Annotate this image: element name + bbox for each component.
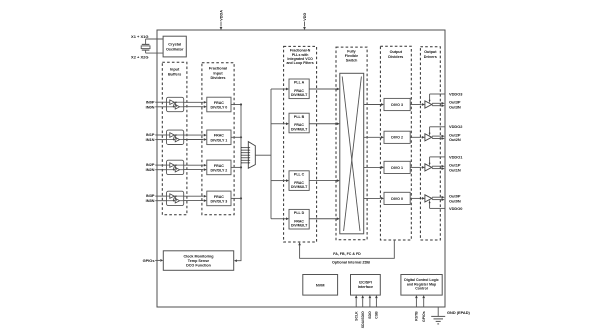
switch matrix box (340, 73, 364, 234)
clock monitoring box (163, 251, 233, 270)
wire VDDO2 (430, 126, 445, 128)
wire feedback arrow (298, 242, 301, 245)
svg-text:GPIOs: GPIOs (143, 258, 155, 263)
svg-text:DIV/MULT: DIV/MULT (291, 93, 308, 97)
wire feed to PLL B (271, 123, 286, 125)
wire IN3N (155, 200, 166, 202)
svg-text:FRAC: FRAC (214, 164, 224, 168)
svg-text:FRAC: FRAC (214, 134, 224, 138)
nvm box (303, 275, 338, 296)
svg-text:and Loop Filters: and Loop Filters (286, 61, 313, 65)
input buffer IN1 (167, 130, 184, 144)
wire mux out (255, 154, 271, 156)
wire feed to PLL C (271, 180, 286, 182)
wire switch out 3 (364, 104, 381, 106)
svg-text:SDO: SDO (368, 311, 372, 319)
wire div3 to driver (410, 104, 421, 106)
pin SDO (369, 298, 371, 307)
pll C box (289, 171, 309, 191)
wire buffer1 to frac P (184, 134, 204, 136)
svg-text:IN0N: IN0N (146, 104, 155, 109)
digital control box (401, 275, 442, 296)
svg-text:Control: Control (415, 287, 427, 291)
svg-text:PLL C: PLL C (294, 173, 305, 177)
wire switch out 1 (364, 166, 381, 168)
svg-text:VDDO3: VDDO3 (449, 91, 463, 96)
fractional input dividers group (202, 63, 234, 215)
switch group (336, 47, 367, 240)
wire crystal top (146, 38, 164, 40)
svg-text:Oscillator: Oscillator (166, 47, 184, 51)
svg-text:Optional Internal ZDB: Optional Internal ZDB (332, 260, 370, 264)
svg-text:VDD: VDD (303, 13, 307, 21)
wire IN1P (155, 134, 166, 136)
output divider box 0 (384, 192, 410, 204)
wire Out1P (432, 165, 441, 167)
svg-text:Drivers: Drivers (424, 55, 437, 59)
frac divider box 0 (207, 97, 231, 112)
svg-text:Out1N: Out1N (449, 167, 461, 172)
output divider box 2 (384, 131, 410, 143)
wire to ground (437, 307, 439, 316)
wire feedback (300, 240, 395, 258)
pin GPIOs (423, 298, 425, 307)
svg-text:CSB: CSB (375, 311, 379, 319)
wire buffer3 to frac N (184, 200, 204, 202)
wire frac3 out (231, 197, 241, 199)
chip boundary (157, 30, 445, 307)
wire buffer0 to frac P (184, 101, 204, 103)
svg-text:DIVO 2: DIVO 2 (391, 136, 403, 140)
output drivers group (420, 47, 440, 240)
svg-text:DIV/DLY 1: DIV/DLY 1 (211, 139, 228, 143)
svg-text:X1 + X1G: X1 + X1G (131, 34, 148, 39)
wire Out0P (432, 196, 441, 198)
output dividers group (380, 46, 411, 240)
wire PLL C to switch (309, 180, 337, 182)
output driver 3 (425, 101, 432, 108)
svg-text:DIVO 0: DIVO 0 (391, 197, 403, 201)
pll B box (289, 113, 309, 133)
svg-text:DIV/DLY 2: DIV/DLY 2 (211, 169, 228, 173)
wire VDDO3 (430, 93, 445, 95)
pin VDDA (220, 22, 222, 27)
svg-text:Output: Output (390, 50, 403, 54)
svg-text:Output: Output (424, 50, 437, 54)
pll D box (289, 209, 309, 229)
wire pll feed bus (270, 89, 272, 219)
svg-text:GND (EPAD): GND (EPAD) (447, 310, 471, 315)
wire PLL B to switch (309, 123, 337, 125)
svg-text:X2 + X2G: X2 + X2G (131, 55, 148, 60)
wire Out3N (432, 105, 441, 107)
wire IN2N (155, 169, 166, 171)
svg-text:IN2N: IN2N (146, 167, 155, 172)
input mux (248, 142, 255, 169)
wire buffer0 to frac N (184, 106, 204, 108)
svg-text:DIV/DLY 0: DIV/DLY 0 (211, 106, 228, 110)
pll group (284, 46, 317, 242)
wire crystal bottom (146, 52, 164, 54)
wire div2 to driver (410, 136, 421, 138)
svg-text:FRAC: FRAC (214, 195, 224, 199)
svg-text:IN1N: IN1N (146, 137, 155, 142)
wire input bus (237, 105, 242, 261)
svg-text:Flexible: Flexible (345, 54, 358, 58)
output driver 1 (425, 164, 432, 171)
svg-text:Out3N: Out3N (449, 104, 461, 109)
svg-text:Dividers: Dividers (388, 55, 403, 59)
pin SCLK (355, 298, 357, 307)
wire div0 to driver (410, 197, 421, 199)
wire buffer1 to frac N (184, 139, 204, 141)
svg-text:VDDO2: VDDO2 (449, 124, 463, 129)
wire frac1 out (231, 136, 241, 138)
svg-text:Input: Input (213, 71, 223, 75)
svg-text:Fully: Fully (347, 50, 355, 54)
crystal Y1 (145, 39, 147, 44)
wire VDDO1 (430, 156, 445, 158)
wire buffer3 to frac P (184, 195, 204, 197)
svg-text:VDDO0: VDDO0 (449, 206, 462, 211)
wire div1 to driver (410, 166, 421, 168)
wire PLL A to switch (309, 88, 337, 90)
svg-text:SCLK: SCLK (355, 311, 359, 321)
pin SDA/SDIO (362, 298, 364, 307)
input buffer IN0 (167, 97, 184, 111)
wire switch out 2 (364, 136, 381, 138)
switch cross (342, 77, 360, 232)
driver 1 fork (431, 166, 433, 168)
output divider box 1 (384, 161, 410, 173)
svg-text:FRAC: FRAC (214, 101, 224, 105)
svg-text:DIV/DLY 3: DIV/DLY 3 (211, 200, 228, 204)
output driver 2 (425, 134, 432, 141)
wire Out2P (432, 135, 441, 137)
wire feed to PLL A (271, 88, 286, 90)
wire switch out 0 (364, 197, 381, 199)
input buffer IN2 (167, 160, 184, 174)
wire bus arrow into monitor (234, 259, 237, 262)
wire IN0N (155, 106, 166, 108)
svg-text:Interface: Interface (358, 285, 373, 289)
svg-text:NVM: NVM (316, 282, 325, 287)
wire frac0 out (231, 104, 241, 106)
svg-text:PLL D: PLL D (294, 211, 305, 215)
svg-text:DIVO 1: DIVO 1 (391, 166, 403, 170)
driver 3 fork (431, 103, 433, 105)
svg-text:SDA/SDIO: SDA/SDIO (361, 311, 365, 328)
svg-text:Buffers: Buffers (168, 72, 181, 76)
wire IN0P (155, 101, 166, 103)
svg-text:PLL B: PLL B (294, 115, 305, 119)
frac divider box 1 (207, 130, 231, 145)
wire buffer2 to frac P (184, 164, 204, 166)
svg-text:Fractional: Fractional (209, 67, 227, 71)
wire buffer2 to frac N (184, 169, 204, 171)
svg-text:GPIOs: GPIOs (422, 311, 426, 322)
input buffers group (162, 62, 187, 214)
pin RSTB (415, 298, 417, 307)
svg-text:DIVO 3: DIVO 3 (391, 103, 403, 107)
frac divider box 3 (207, 191, 231, 206)
pll A box (289, 79, 309, 99)
driver 2 fork (431, 136, 433, 138)
svg-text:FA, FB, FC & FD: FA, FB, FC & FD (333, 252, 361, 256)
bus bundle to mux (241, 147, 248, 149)
driver 0 fork (431, 197, 433, 199)
svg-text:DIV/MULT: DIV/MULT (291, 224, 308, 228)
output driver 0 (425, 195, 432, 202)
svg-text:DIV/MULT: DIV/MULT (291, 185, 308, 189)
wire Out1N (432, 168, 441, 170)
wire Out0N (432, 199, 441, 201)
svg-text:Out0N: Out0N (449, 198, 461, 203)
wire IN3P (155, 195, 166, 197)
wire VDDO0 (430, 207, 445, 209)
svg-text:VDDO1: VDDO1 (449, 154, 463, 159)
pin CSB (375, 298, 377, 307)
svg-text:I2C/SPI: I2C/SPI (359, 280, 372, 284)
svg-text:DIV/MULT: DIV/MULT (291, 127, 308, 131)
svg-text:DCO Function: DCO Function (186, 264, 212, 268)
svg-text:Dividers: Dividers (211, 76, 226, 80)
frac divider box 2 (207, 160, 231, 175)
wire Out3P (432, 102, 441, 104)
i2c/spi interface box (351, 275, 381, 296)
wire GPIOs in (155, 259, 160, 261)
wire IN2P (155, 164, 166, 166)
svg-text:Crystal: Crystal (168, 42, 181, 46)
wire IN1N (155, 139, 166, 141)
wire Out2N (432, 138, 441, 140)
svg-text:PLL A: PLL A (294, 81, 305, 85)
svg-text:Switch: Switch (346, 59, 358, 63)
svg-text:VDDA: VDDA (219, 10, 223, 21)
svg-text:Input: Input (170, 68, 180, 72)
output divider box 3 (384, 98, 410, 110)
svg-text:Clock Monitoring: Clock Monitoring (183, 255, 213, 259)
crystal oscillator box (163, 36, 186, 57)
pin VDD (304, 22, 306, 27)
wire frac2 out (231, 166, 241, 168)
ground (431, 315, 445, 317)
svg-text:Temp Sense: Temp Sense (188, 259, 209, 263)
wire feed to PLL D (271, 218, 286, 220)
input buffer IN3 (167, 191, 184, 205)
svg-text:RSTB: RSTB (415, 311, 419, 321)
wire PLL D to switch (309, 218, 337, 220)
svg-text:Out2N: Out2N (449, 137, 461, 142)
svg-text:IN3N: IN3N (146, 198, 155, 203)
